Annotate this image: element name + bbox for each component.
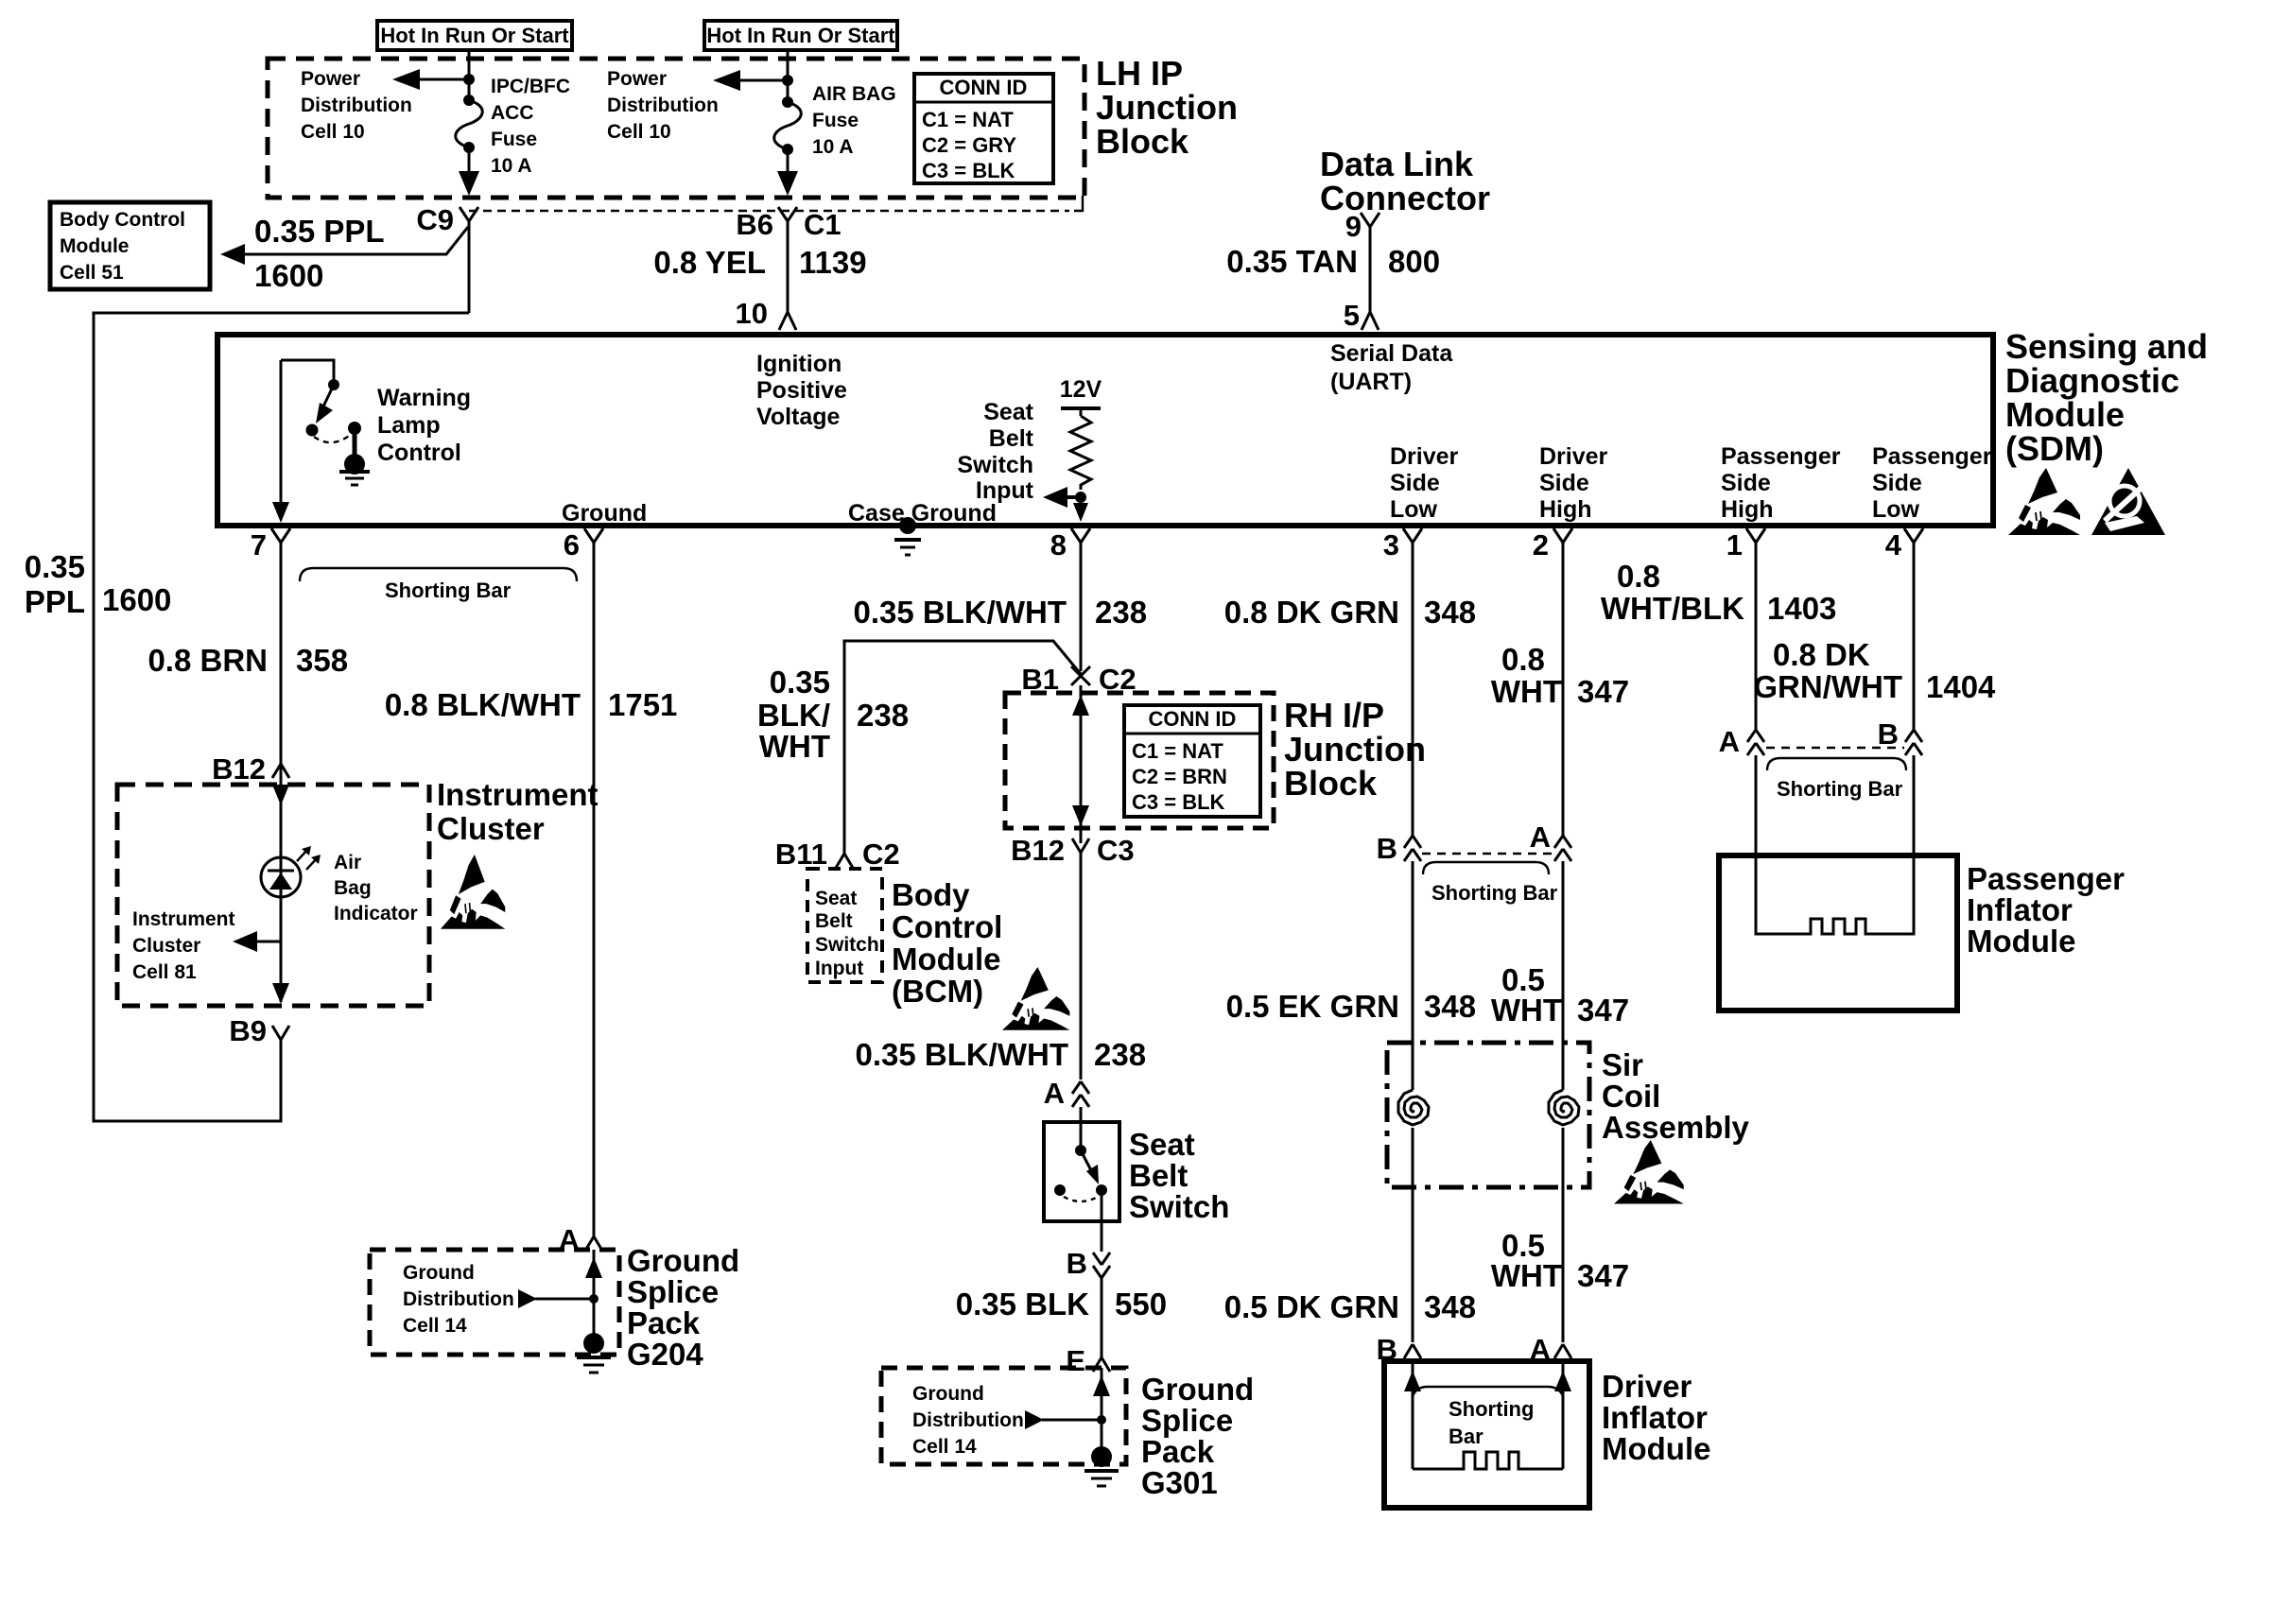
- svg-text:G301: G301: [1141, 1465, 1218, 1500]
- svg-text:0.8 BLK/WHT: 0.8 BLK/WHT: [385, 687, 581, 722]
- wire branch arrow to Instrument Cluster Cell 81: [233, 931, 281, 952]
- svg-text:1600: 1600: [254, 258, 323, 293]
- svg-text:Positive: Positive: [756, 377, 847, 404]
- svg-text:0.8: 0.8: [1617, 559, 1660, 594]
- svg-text:C9: C9: [416, 203, 454, 236]
- svg-text:Switch: Switch: [957, 452, 1033, 478]
- fuse AIR BAG 10 A: [774, 96, 802, 155]
- svg-text:Data Link: Data Link: [1320, 145, 1474, 183]
- connector B9: [229, 1014, 289, 1047]
- svg-text:Warning: Warning: [377, 385, 471, 411]
- svg-text:WHT: WHT: [1491, 993, 1562, 1028]
- svg-text:Driver: Driver: [1602, 1369, 1692, 1404]
- svg-text:Distribution: Distribution: [403, 1288, 514, 1310]
- svg-text:Switch: Switch: [815, 934, 879, 956]
- wire C9 down: [468, 221, 471, 313]
- wire pin 3 down (0.8 DK GRN 348): [1224, 543, 1476, 836]
- svg-text:Inflator: Inflator: [1602, 1400, 1708, 1435]
- svg-text:Power: Power: [607, 68, 667, 90]
- svg-text:B12: B12: [212, 752, 266, 786]
- wire shorting bar dashed (3-2): [1422, 853, 1554, 855]
- svg-text:0.8 DK: 0.8 DK: [1773, 637, 1870, 672]
- svg-text:Pack: Pack: [1141, 1434, 1215, 1469]
- svg-text:Block: Block: [1284, 764, 1378, 803]
- connector B (passenger shorting bar): [1878, 717, 1922, 755]
- label Passenger Side High: [1721, 443, 1841, 523]
- svg-text:Indicator: Indicator: [334, 903, 418, 924]
- svg-text:C3: C3: [1097, 834, 1135, 867]
- label Passenger Side Low: [1872, 443, 1992, 523]
- svg-text:Switch: Switch: [1129, 1189, 1229, 1224]
- svg-text:Control: Control: [377, 440, 461, 466]
- svg-text:CONN ID: CONN ID: [1149, 707, 1237, 731]
- svg-text:B6: B6: [736, 208, 773, 241]
- wire connector face dashed line C9-C1: [469, 210, 1069, 212]
- label Air Bag Indicator: [334, 852, 418, 924]
- wire warning lamp to pin 7 (arrow down): [280, 360, 283, 514]
- svg-text:Diagnostic: Diagnostic: [2005, 361, 2179, 400]
- wire 0.8 YEL 1139: [653, 221, 866, 312]
- label Sir Coil Assembly: [1602, 1047, 1750, 1145]
- node Ground Splice Pack G204 dashed box: [370, 1250, 619, 1355]
- svg-text:1139: 1139: [799, 245, 867, 280]
- wire into G204 (arrow up): [585, 1250, 602, 1342]
- svg-text:(UART): (UART): [1330, 369, 1412, 395]
- svg-text:B12: B12: [1011, 834, 1065, 867]
- wire B12/C3 to seat belt switch (0.35 BLK/WHT 238): [855, 853, 1146, 1080]
- svg-text:Seat: Seat: [1129, 1127, 1195, 1162]
- svg-text:Bag: Bag: [334, 877, 372, 899]
- svg-text:1404: 1404: [1926, 669, 1996, 704]
- label Driver Inflator Module: [1602, 1369, 1710, 1466]
- svg-text:0.8: 0.8: [1501, 642, 1545, 677]
- wire squib loop driver (arrows up): [1404, 1361, 1571, 1469]
- svg-text:10 A: 10 A: [491, 155, 532, 177]
- wire 2 below coil (0.5 WHT 347): [1491, 1128, 1629, 1342]
- svg-text:Fuse: Fuse: [491, 129, 537, 150]
- svg-text:1751: 1751: [608, 687, 677, 722]
- wire into G301 (arrow up): [1093, 1368, 1110, 1453]
- svg-text:Splice: Splice: [1141, 1403, 1233, 1438]
- wire 1 to passenger module: [1755, 755, 1758, 934]
- resistor seat belt switch input pull-up: [1060, 376, 1102, 503]
- svg-text:C1 = NAT: C1 = NAT: [1132, 739, 1223, 763]
- svg-text:Distribution: Distribution: [912, 1409, 1024, 1431]
- switch warning lamp control: [281, 360, 370, 485]
- wire 0.35 PPL 1600 arrow to Body Control Module: [220, 214, 468, 293]
- svg-text:LH IP: LH IP: [1096, 54, 1183, 93]
- svg-text:A: A: [1530, 821, 1551, 854]
- connector A (driver inflator): [1530, 1333, 1571, 1366]
- svg-text:Cell 10: Cell 10: [301, 121, 365, 143]
- connector A (passenger shorting bar): [1719, 725, 1764, 758]
- svg-text:5: 5: [1344, 299, 1360, 332]
- svg-text:12V: 12V: [1060, 376, 1102, 403]
- svg-text:2: 2: [1533, 528, 1549, 561]
- svg-text:Hot In Run Or Start: Hot In Run Or Start: [380, 24, 569, 47]
- label Ground Distribution Cell 14 (G204): [403, 1262, 514, 1337]
- svg-text:CONN ID: CONN ID: [940, 76, 1028, 99]
- node Driver Inflator Module box: [1384, 1361, 1589, 1508]
- svg-text:Input: Input: [976, 477, 1034, 504]
- svg-text:Cluster: Cluster: [437, 811, 545, 846]
- CONN ID table (RH I/P): [1124, 705, 1260, 817]
- svg-text:WHT/BLK: WHT/BLK: [1601, 591, 1744, 626]
- svg-text:0.35 TAN: 0.35 TAN: [1226, 244, 1358, 279]
- svg-text:Serial Data: Serial Data: [1330, 340, 1453, 367]
- svg-text:Belt: Belt: [1129, 1158, 1188, 1193]
- junction dot: [782, 75, 793, 86]
- svg-text:(SDM): (SDM): [2005, 429, 2104, 468]
- label Driver Side Low: [1390, 443, 1459, 523]
- wire branch to B11 (BCM seat belt switch input): [757, 641, 1081, 854]
- label Seat Belt Switch: [1129, 1127, 1229, 1224]
- svg-text:Air: Air: [334, 852, 361, 873]
- svg-text:ACC: ACC: [491, 102, 534, 124]
- connector B (below seat belt switch): [1067, 1247, 1110, 1280]
- svg-text:RH I/P: RH I/P: [1284, 696, 1384, 734]
- label Data Link Connector: [1320, 145, 1490, 217]
- svg-text:8: 8: [1050, 528, 1067, 561]
- svg-text:Cell 14: Cell 14: [912, 1436, 977, 1458]
- node Body Control Module Cell 51: [50, 202, 210, 289]
- svg-text:Side: Side: [1390, 470, 1440, 496]
- svg-text:6: 6: [564, 528, 580, 561]
- label Serial Data (UART): [1330, 340, 1453, 395]
- fuse IPC/BFC ACC 10 A: [456, 95, 483, 153]
- connector C1 / B6: [736, 207, 841, 241]
- svg-text:Seat: Seat: [815, 888, 857, 909]
- wire ground distribution arrow into splice: [518, 1289, 599, 1308]
- svg-text:B9: B9: [229, 1014, 267, 1047]
- label AIR BAG Fuse 10 A: [812, 83, 896, 158]
- wire pin 6 down (0.8 BLK/WHT 1751): [385, 543, 678, 1236]
- svg-text:Sir: Sir: [1602, 1047, 1643, 1082]
- label Ground Distribution Cell 14 (G301): [912, 1383, 1024, 1458]
- svg-text:Fuse: Fuse: [812, 110, 859, 131]
- wire input arrow left: [1063, 495, 1081, 499]
- wire branch to Power Distribution (arrow left): [414, 78, 469, 81]
- label Ground Splice Pack G301: [1141, 1372, 1254, 1500]
- svg-text:550: 550: [1115, 1287, 1167, 1322]
- svg-text:G204: G204: [627, 1337, 703, 1372]
- svg-text:Driver: Driver: [1539, 443, 1608, 470]
- svg-text:C2: C2: [862, 838, 900, 871]
- shorting bar bracket (passenger): [1767, 758, 1906, 801]
- node Hot In Run Or Start (left): [377, 21, 572, 50]
- svg-text:Hot In Run Or Start: Hot In Run Or Start: [706, 24, 895, 47]
- shorting bar bracket (pins 7-6): [300, 568, 577, 602]
- label Seat Belt Switch Input: [957, 399, 1033, 504]
- connector B12 C3: [1011, 834, 1135, 867]
- svg-text:9: 9: [1345, 210, 1362, 243]
- svg-text:238: 238: [1094, 1037, 1146, 1072]
- ESD warning triangle (BCM): [1002, 967, 1069, 1030]
- svg-text:Module: Module: [1967, 924, 2075, 959]
- connector B12 (instrument cluster): [212, 752, 289, 786]
- svg-text:Bar: Bar: [1449, 1425, 1484, 1448]
- svg-text:Splice: Splice: [627, 1274, 719, 1309]
- svg-text:C3 = BLK: C3 = BLK: [1132, 790, 1225, 814]
- wire squib resistance element (passenger): [1756, 855, 1914, 934]
- wire 2 to SIR coil (0.5 WHT 347): [1491, 861, 1629, 1090]
- svg-text:BLK/: BLK/: [757, 698, 830, 733]
- wire fuse to C9 (arrow down): [468, 147, 471, 185]
- svg-text:0.35: 0.35: [770, 665, 830, 700]
- coil passenger side (spiral): [1549, 1090, 1579, 1125]
- pin 2 connector: [1533, 528, 1572, 561]
- svg-text:Belt: Belt: [815, 910, 853, 932]
- wire 0.35 PPL 1600 left loop: [25, 313, 469, 1121]
- svg-text:0.35: 0.35: [25, 549, 85, 584]
- wire from Hot box left to fuse: [468, 50, 471, 100]
- svg-text:C1: C1: [804, 208, 842, 241]
- connector B1 C2 (RH I/P): [1021, 663, 1136, 696]
- svg-text:C2 = GRY: C2 = GRY: [922, 133, 1016, 157]
- wire 0.35 TAN 800: [1226, 227, 1440, 312]
- svg-text:1600: 1600: [102, 582, 171, 617]
- svg-text:Low: Low: [1872, 496, 1920, 523]
- svg-text:0.35 BLK/WHT: 0.35 BLK/WHT: [853, 595, 1067, 630]
- coil driver side (spiral): [1398, 1090, 1429, 1125]
- label RH I/P Junction Block: [1284, 696, 1426, 803]
- svg-text:Input: Input: [815, 958, 863, 979]
- svg-text:347: 347: [1577, 674, 1629, 709]
- svg-text:7: 7: [251, 528, 267, 561]
- svg-text:Voltage: Voltage: [756, 404, 841, 430]
- svg-text:WHT: WHT: [1491, 1258, 1562, 1293]
- pin 5 connector: [1344, 299, 1379, 332]
- switch Seat Belt Switch: [1044, 1107, 1119, 1252]
- svg-text:IPC/BFC: IPC/BFC: [491, 76, 570, 97]
- svg-text:Junction: Junction: [1096, 88, 1238, 127]
- wire 0.35 BLK 550: [956, 1278, 1167, 1357]
- svg-text:Low: Low: [1390, 496, 1438, 523]
- svg-text:Instrument: Instrument: [437, 777, 599, 812]
- svg-text:0.35 PPL: 0.35 PPL: [254, 214, 385, 249]
- ground G204 symbol: [577, 1333, 611, 1373]
- svg-text:Lamp: Lamp: [377, 412, 441, 439]
- node Passenger Inflator Module box: [1719, 855, 1957, 1011]
- node Instrument Cluster dashed box: [117, 785, 429, 1006]
- pin 3 connector: [1383, 528, 1422, 561]
- svg-text:B11: B11: [775, 838, 827, 871]
- op-amp SDM module box (Sensing and Diagnostic Module): [217, 335, 1993, 526]
- svg-text:Case Ground: Case Ground: [848, 500, 997, 527]
- svg-text:0.8 BRN: 0.8 BRN: [147, 643, 268, 678]
- svg-text:0.8 DK GRN: 0.8 DK GRN: [1224, 595, 1399, 630]
- svg-text:238: 238: [1095, 595, 1147, 630]
- svg-text:3: 3: [1383, 528, 1399, 561]
- svg-text:C1 = NAT: C1 = NAT: [922, 108, 1014, 131]
- wire from Hot box right to fuse: [787, 50, 789, 102]
- svg-text:Module: Module: [1602, 1431, 1710, 1466]
- label Driver Side High: [1539, 443, 1608, 523]
- wire ground distribution arrow into splice (G301): [1025, 1410, 1106, 1429]
- label Passenger Inflator Module: [1967, 861, 2125, 959]
- pin 8 connector: [1050, 528, 1090, 561]
- wire arrow down at cluster exit: [272, 983, 289, 1004]
- node Ground Splice Pack G301 dashed box: [881, 1368, 1126, 1464]
- svg-text:Shorting: Shorting: [1449, 1397, 1534, 1421]
- svg-text:348: 348: [1424, 989, 1476, 1024]
- connector B11 C2 (BCM): [775, 838, 900, 871]
- svg-text:Body: Body: [892, 877, 970, 912]
- connector A (wire 2 shorting bar): [1530, 821, 1571, 861]
- label Ground Splice Pack G204: [627, 1243, 739, 1372]
- svg-text:10: 10: [736, 297, 768, 330]
- svg-text:Ground: Ground: [912, 1383, 984, 1405]
- svg-text:Distribution: Distribution: [607, 95, 719, 116]
- svg-text:A: A: [1719, 725, 1740, 758]
- svg-text:WHT: WHT: [759, 729, 830, 764]
- svg-text:Side: Side: [1872, 470, 1922, 496]
- svg-text:Junction: Junction: [1284, 730, 1426, 769]
- svg-text:Shorting Bar: Shorting Bar: [385, 579, 512, 602]
- svg-text:Distribution: Distribution: [301, 95, 412, 116]
- svg-text:Ground: Ground: [562, 500, 647, 527]
- ESD warning triangle (SIR coil): [1614, 1140, 1684, 1203]
- connector A (seat belt switch): [1044, 1077, 1089, 1110]
- pin 6 connector: [564, 528, 603, 561]
- LED air bag indicator: [261, 846, 321, 897]
- svg-text:0.35 BLK: 0.35 BLK: [956, 1287, 1089, 1322]
- svg-text:348: 348: [1424, 1289, 1476, 1324]
- svg-text:348: 348: [1424, 595, 1476, 630]
- pin 7 connector: [251, 528, 290, 561]
- svg-text:GRN/WHT: GRN/WHT: [1753, 669, 1902, 704]
- wire 4 to passenger module: [1913, 755, 1916, 934]
- pin 4 connector: [1885, 528, 1923, 561]
- svg-text:B: B: [1878, 717, 1899, 751]
- svg-text:AIR BAG: AIR BAG: [812, 83, 896, 105]
- node Sir Coil Assembly dash-dot box: [1387, 1043, 1589, 1187]
- svg-text:High: High: [1721, 496, 1774, 523]
- svg-text:C3 = BLK: C3 = BLK: [922, 159, 1015, 182]
- wire branch to Power Distribution (arrow left): [735, 79, 788, 82]
- wire fuse to C1 (arrow down): [787, 149, 789, 185]
- wire pin 7 to B12 (0.8 BRN 358): [147, 543, 348, 764]
- connector E (G301): [1066, 1344, 1110, 1377]
- shorting bar bracket (3-2): [1423, 862, 1558, 905]
- svg-text:Shorting Bar: Shorting Bar: [1431, 881, 1558, 905]
- label Power Distribution Cell 10 (left): [301, 68, 412, 143]
- wire pin 4 down (0.8 DK GRN/WHT 1404): [1753, 543, 1996, 730]
- svg-text:Cell 14: Cell 14: [403, 1315, 467, 1337]
- svg-text:High: High: [1539, 496, 1592, 523]
- svg-text:B: B: [1377, 832, 1397, 865]
- label Instrument Cluster Cell 81: [132, 908, 235, 983]
- connector B (wire 3 shorting bar): [1377, 832, 1421, 865]
- svg-text:0.8 YEL: 0.8 YEL: [653, 245, 766, 280]
- svg-text:Passenger: Passenger: [1967, 861, 2125, 896]
- svg-text:B: B: [1067, 1247, 1087, 1280]
- CONN ID table (LH IP): [914, 74, 1053, 183]
- label Power Distribution Cell 10 (right): [607, 68, 719, 143]
- svg-text:1: 1: [1726, 528, 1743, 561]
- ground G301 symbol: [1084, 1446, 1119, 1486]
- svg-text:Ground: Ground: [1141, 1372, 1254, 1407]
- wire 3 below coil (0.5 DK GRN 348): [1224, 1128, 1476, 1342]
- wire into cluster (arrow down): [272, 764, 289, 898]
- svg-text:Pack: Pack: [627, 1305, 701, 1340]
- label LH IP Junction Block: [1096, 54, 1238, 161]
- label Warning Lamp Control: [377, 385, 471, 466]
- wire pin 8 down (0.35 BLK/WHT 238): [853, 543, 1147, 671]
- svg-text:Assembly: Assembly: [1602, 1110, 1750, 1145]
- svg-text:Cluster: Cluster: [132, 935, 200, 957]
- svg-text:Module: Module: [2005, 395, 2125, 434]
- wire resistor to pin 8 (arrow down): [1080, 497, 1083, 512]
- svg-text:0.35 BLK/WHT: 0.35 BLK/WHT: [855, 1037, 1068, 1072]
- svg-text:WHT: WHT: [1491, 674, 1562, 709]
- svg-text:C2 = BRN: C2 = BRN: [1132, 765, 1227, 788]
- wire LED to B9 with branch: [280, 895, 283, 1002]
- svg-text:Coil: Coil: [1602, 1079, 1660, 1114]
- node RH I/P Junction Block dashed box: [1005, 693, 1274, 828]
- junction dot: [463, 74, 475, 85]
- connector C9: [416, 203, 478, 236]
- svg-text:0.5 DK GRN: 0.5 DK GRN: [1224, 1289, 1399, 1324]
- label IPC/BFC ACC Fuse 10 A: [491, 76, 570, 177]
- svg-text:Cell 51: Cell 51: [60, 262, 124, 284]
- svg-text:Driver: Driver: [1390, 443, 1459, 470]
- svg-text:Control: Control: [892, 909, 1002, 944]
- svg-text:Instrument: Instrument: [132, 908, 235, 930]
- svg-text:E: E: [1066, 1344, 1085, 1377]
- svg-text:Body Control: Body Control: [60, 209, 185, 231]
- node Hot In Run Or Start (right): [704, 21, 897, 50]
- svg-text:Cell 81: Cell 81: [132, 961, 197, 983]
- svg-text:Shorting Bar: Shorting Bar: [1777, 777, 1903, 801]
- connector B (driver inflator): [1377, 1333, 1421, 1366]
- svg-text:Belt: Belt: [989, 425, 1034, 452]
- svg-text:Ignition: Ignition: [756, 351, 842, 377]
- svg-text:Sensing and: Sensing and: [2005, 327, 2208, 366]
- ESD warning triangle 2 (SDM): [2091, 468, 2165, 535]
- connector pin 9: [1345, 210, 1379, 243]
- svg-text:Side: Side: [1721, 470, 1771, 496]
- label Body Control Module (BCM): [892, 877, 1002, 1009]
- svg-text:800: 800: [1388, 244, 1440, 279]
- wire through RH I/P junction block: [1072, 685, 1089, 843]
- svg-text:A: A: [1044, 1077, 1065, 1110]
- pin 1 connector: [1726, 528, 1765, 561]
- svg-text:Passenger: Passenger: [1721, 443, 1841, 470]
- ESD warning triangle (instrument cluster): [441, 855, 505, 929]
- svg-text:Ground: Ground: [627, 1243, 739, 1278]
- svg-text:Inflator: Inflator: [1967, 892, 2073, 927]
- svg-text:4: 4: [1885, 528, 1902, 561]
- wire squib resistance element (driver): [1413, 1452, 1563, 1469]
- pin 10 connector: [736, 297, 796, 330]
- svg-text:0.5 EK GRN: 0.5 EK GRN: [1226, 989, 1399, 1024]
- svg-text:347: 347: [1577, 993, 1629, 1028]
- svg-text:Cell 10: Cell 10: [607, 121, 671, 143]
- ground case ground symbol: [894, 517, 921, 555]
- wire shorting bar dashed (passenger): [1766, 747, 1904, 749]
- svg-text:(BCM): (BCM): [892, 974, 983, 1009]
- node Seat Belt Switch Input dashed box (BCM): [807, 869, 882, 982]
- label Sensing and Diagnostic Module (SDM): [2005, 327, 2208, 468]
- svg-text:Seat: Seat: [983, 399, 1033, 425]
- wire 3 to SIR coil (0.5 EK GRN 348): [1226, 861, 1476, 1090]
- svg-text:358: 358: [296, 643, 348, 678]
- svg-text:10 A: 10 A: [812, 136, 854, 158]
- svg-text:238: 238: [857, 698, 909, 733]
- ESD warning triangle 1 (SDM): [2008, 468, 2080, 535]
- svg-text:Block: Block: [1096, 122, 1189, 161]
